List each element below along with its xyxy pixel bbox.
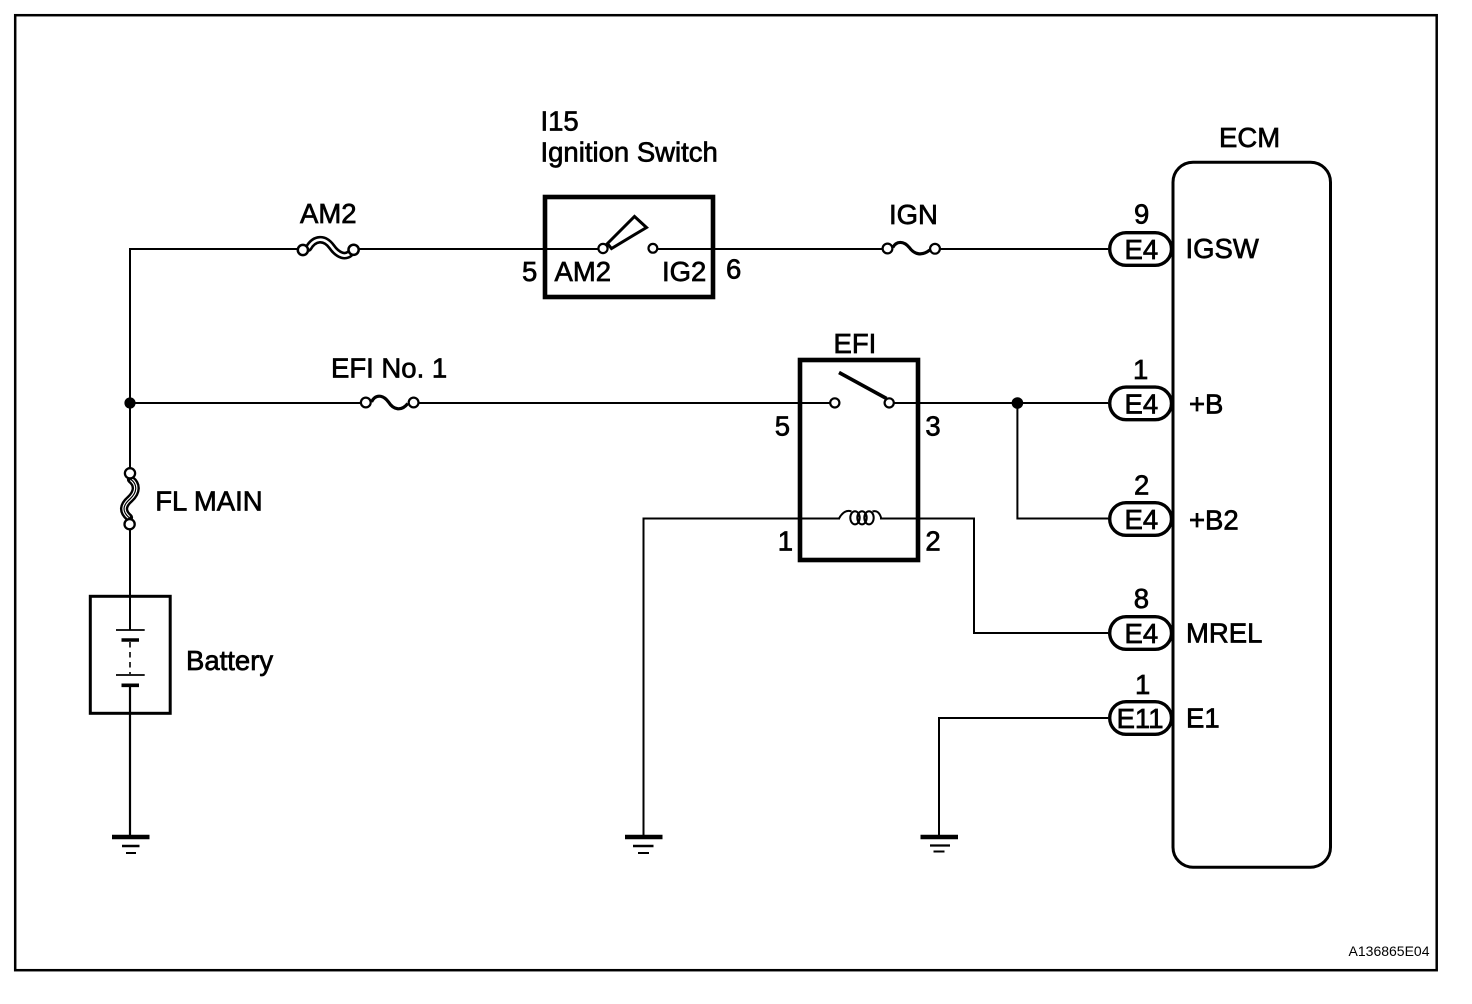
svg-text:5: 5 [775, 410, 790, 441]
svg-text:E4: E4 [1125, 618, 1159, 649]
svg-text:Ignition Switch: Ignition Switch [541, 137, 718, 168]
svg-text:2: 2 [1134, 469, 1149, 500]
svg-text:1: 1 [1133, 354, 1148, 385]
svg-text:2: 2 [925, 526, 940, 557]
svg-text:FL MAIN: FL MAIN [155, 485, 262, 516]
svg-text:AM2: AM2 [555, 256, 612, 287]
svg-text:8: 8 [1134, 583, 1149, 614]
svg-text:A136865E04: A136865E04 [1349, 943, 1430, 959]
svg-text:Battery: Battery [186, 645, 273, 676]
svg-text:5: 5 [522, 256, 537, 287]
svg-text:MREL: MREL [1186, 618, 1262, 649]
svg-text:EFI: EFI [834, 328, 877, 359]
svg-text:IG2: IG2 [662, 256, 706, 287]
svg-text:AM2: AM2 [300, 198, 357, 229]
svg-text:3: 3 [925, 410, 940, 441]
svg-text:6: 6 [726, 254, 741, 285]
svg-text:E1: E1 [1186, 702, 1220, 733]
svg-text:+B2: +B2 [1189, 504, 1239, 535]
svg-text:EFI No. 1: EFI No. 1 [331, 352, 447, 383]
svg-text:IGN: IGN [889, 199, 938, 230]
svg-text:1: 1 [778, 526, 793, 557]
svg-text:E4: E4 [1125, 234, 1159, 265]
svg-text:+B: +B [1189, 389, 1223, 420]
svg-text:9: 9 [1134, 199, 1149, 230]
svg-text:E4: E4 [1125, 504, 1159, 535]
svg-text:I15: I15 [541, 106, 579, 137]
svg-text:ECM: ECM [1219, 122, 1280, 153]
svg-text:1: 1 [1135, 669, 1150, 700]
svg-text:IGSW: IGSW [1186, 233, 1259, 264]
svg-text:E11: E11 [1117, 703, 1164, 734]
svg-text:E4: E4 [1125, 389, 1159, 420]
